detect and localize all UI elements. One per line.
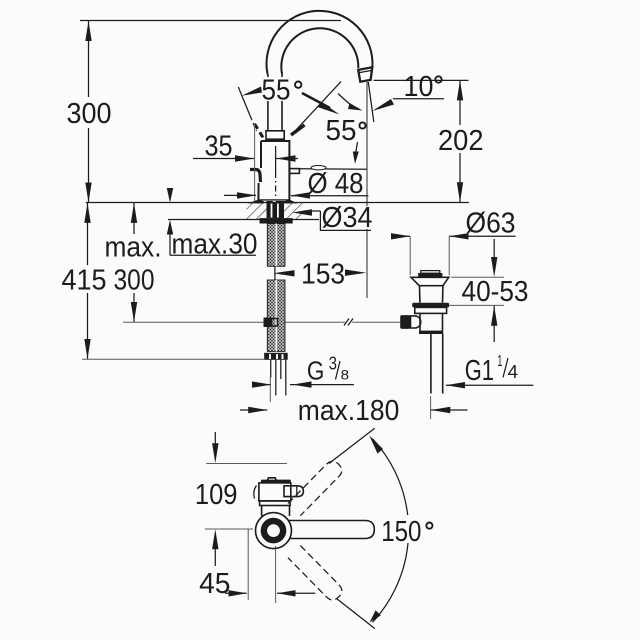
dim 35 arrows [193,158,254,160]
dim 300 arrow up [85,21,91,41]
braided hose lower segment [267,280,285,351]
collar below pipe [266,131,284,140]
counter bottom line left [168,219,267,221]
10deg underline [393,98,444,100]
body left lower edge [257,183,259,201]
drain bottom collar [419,331,443,334]
dim 109 vertical top [214,432,216,448]
55deg1 right leader line with arrowhead [302,93,330,108]
svg-text:4: 4 [508,362,518,382]
dashed spout capsule up-right [288,458,345,515]
curved angle arrow [338,94,357,109]
lever raised dashes left [255,124,265,140]
dim max180 [240,409,267,411]
svg-text:Ø 48: Ø 48 [308,168,364,200]
drain neck [420,286,443,303]
dim O63 [409,236,411,275]
svg-text:55: 55 [262,75,291,107]
spout circle outer [256,513,292,549]
rod knob black [400,315,410,329]
nozzle parallelogram [358,67,372,81]
spout circle inner dark ring [264,521,283,540]
dashed spout capsule down-right [288,546,345,603]
label 150 deg [379,515,436,543]
drain knob cap [421,271,440,274]
rod cross fitting [264,318,272,328]
dim 202: extension line from nozzle [374,79,469,81]
small oval marker on leader [311,166,326,170]
solid spout capsule right [289,521,374,539]
threaded shank black [267,203,285,218]
svg-text:150: 150 [381,516,421,548]
counter bottom line right [284,219,319,221]
svg-text:415: 415 [62,265,107,297]
svg-text:153: 153 [301,259,345,291]
pop-up rod tab right [289,169,299,174]
dim 300 vertical line [88,21,90,97]
drain seal dark band [412,303,449,308]
drain tailpipe [430,334,432,394]
arc arrow top [369,435,383,453]
dim 45 arrows [225,592,247,594]
rod break marks [344,319,349,326]
sector boundary line top [329,428,375,463]
dim 202 vertical [459,80,461,125]
10deg leader arrow [372,99,394,111]
svg-text:3: 3 [329,353,337,373]
handle top bump [268,478,277,480]
dim 300 arrow down [85,183,91,203]
handle dark top band [261,480,291,483]
counter top line [86,202,469,204]
body centerline dash [275,146,277,172]
G1 1/4 leader [446,382,465,388]
svg-text:8: 8 [341,366,350,382]
45 ext line right (center) [275,546,277,603]
svg-text:300: 300 [67,98,112,130]
dim max30 arrows [167,188,173,203]
hose ref line 415 bottom [82,358,264,360]
dim 415 vertical [87,203,89,266]
dim 40-53 [451,276,504,278]
vertical extension line from nozzle [366,82,368,206]
svg-text:Ø34: Ø34 [322,202,373,234]
sector boundary line bottom [337,599,375,629]
right swing line [296,82,341,130]
dim 109 bottom arrow [212,529,218,549]
dim 35 ext line left [254,124,256,202]
55deg1 left leader arrow [242,87,262,96]
hose gap centerline [274,266,276,280]
drain flange [411,277,449,285]
hose nut black [264,353,288,360]
svg-text:max.180: max.180 [298,395,400,427]
dim max300 vertical [133,203,135,235]
svg-text:Ø63: Ø63 [466,208,516,240]
svg-text:55: 55 [326,115,357,147]
150 deg arc [373,439,409,623]
lever raised thick line right [291,125,305,135]
drain upper body band [415,307,447,313]
left swing line solid part [238,87,250,116]
spout outer arc [267,11,373,74]
nozzle inner line [359,70,372,72]
55deg2 horizontal leader line [300,168,367,170]
counter hatch right [284,203,304,219]
faucet body outline [261,141,289,201]
handle body [259,483,291,501]
spout center ext line [205,528,253,530]
svg-text:202: 202 [438,125,484,157]
escutcheon dark base band [248,200,263,204]
55deg2 down leader [356,142,358,152]
svg-text:300: 300 [114,265,155,297]
svg-text:G: G [307,355,325,385]
collar dark bottom band [266,138,286,141]
lever grip capsule [284,486,303,497]
body column [262,506,290,517]
drain body [420,313,443,330]
top ext line [206,463,287,465]
45 ext line left [247,529,249,600]
handle hook left [250,170,261,183]
max180 ext ticks [269,378,271,402]
top reference line (max height) [80,20,341,22]
handle left arc [254,486,257,499]
counter hatch left [247,203,267,219]
svg-text:40-53: 40-53 [462,276,529,308]
G3/8 underline [290,384,354,386]
spout inner arc [281,28,358,74]
svg-text:109: 109 [195,479,238,511]
rod ref line [123,321,345,323]
svg-text:45: 45 [199,568,230,600]
supply tubes [270,360,272,378]
svg-text:max.: max. [105,232,162,264]
svg-text:1: 1 [497,353,502,370]
arc arrow bottom [370,610,381,622]
dim G3/8 arrows [253,384,271,386]
braided hose upper segment [267,224,285,267]
mounting nut black [260,218,293,223]
dim O48 arrows at body base [224,194,256,196]
svg-text:G1: G1 [465,355,494,387]
handle lower band [260,501,291,506]
svg-text:35: 35 [205,131,233,163]
dim 153 [273,270,294,276]
label max30 underline [170,254,256,256]
riser pipe left edge [267,74,269,77]
nozzle axis 10deg line [368,82,374,122]
svg-text:max.30: max.30 [172,229,258,261]
riser pipe right edge [281,74,283,77]
rod knob white box [411,316,421,328]
left swing line dashed part [250,116,257,132]
